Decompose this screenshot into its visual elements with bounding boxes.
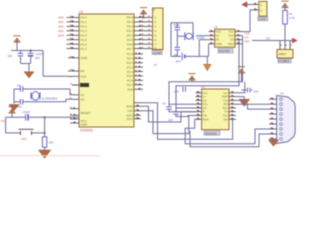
u1 left pins — [70, 15, 72, 18]
svg-text:P0.5: P0.5 — [127, 38, 134, 42]
wire j1 pin2 to ds1302 vcc1 — [243, 10, 253, 32]
svg-text:GND: GND — [81, 123, 89, 127]
header left — [148, 16, 150, 17]
svg-text:X2: X2 — [81, 98, 85, 102]
reset circuit (C1, S1, R2) — [6, 107, 79, 159]
svg-text:CON2: CON2 — [259, 17, 267, 21]
svg-text:P0.6: P0.6 — [127, 42, 134, 46]
cap C8 30pF top — [175, 27, 181, 29]
EA wire — [42, 51, 44, 77]
svg-text:11.0592MHz: 11.0592MHz — [42, 97, 58, 101]
svg-text:AT89S52: AT89S52 — [80, 129, 93, 133]
crystal Y2 32768 — [185, 32, 205, 40]
svg-text:RST: RST — [245, 40, 251, 44]
svg-text:GND: GND — [81, 56, 89, 60]
vcc above header — [140, 8, 147, 19]
svg-text:P1.7: P1.7 — [81, 47, 88, 51]
header JP1 — [147, 8, 164, 67]
crystal Y1 — [30, 92, 32, 99]
max232 U3 — [196, 85, 237, 135]
svg-text:C5: C5 — [162, 102, 166, 106]
svg-text:P1.6: P1.6 — [81, 42, 88, 46]
U1 right pins bottom group — [134, 103, 141, 119]
U1 left pins group P1 — [67, 18, 80, 49]
vcc arrow left (power in) — [242, 2, 253, 7]
svg-text:P2.0: P2.0 — [127, 52, 134, 56]
power connector J1 — [253, 1, 268, 21]
svg-text:DS1302: DS1302 — [219, 49, 230, 53]
svg-text:P1.1: P1.1 — [81, 20, 88, 24]
gnd near max232 — [236, 97, 250, 107]
crystal Y1 11.0592MHz circuit — [9, 84, 72, 111]
svg-text:4.7K: 4.7K — [289, 16, 295, 20]
cap 30p top inline — [20, 86, 22, 92]
switch S1 — [19, 129, 34, 135]
svg-text:MAX232: MAX232 — [205, 131, 217, 135]
svg-text:32768: 32768 — [197, 36, 205, 40]
svg-text:P2.3: P2.3 — [127, 65, 134, 69]
svg-text:X1: X1 — [81, 93, 85, 97]
svg-text:RESET: RESET — [81, 111, 91, 115]
svg-text:P2.2: P2.2 — [127, 61, 134, 65]
db9 left — [271, 98, 273, 99]
svg-text:P1.4: P1.4 — [81, 34, 88, 38]
svg-text:P2.4: P2.4 — [127, 70, 134, 74]
svg-text:ALE: ALE — [127, 88, 133, 92]
svg-text:DS18B20: DS18B20 — [278, 59, 290, 63]
mcu U1 — [79, 10, 134, 133]
U1 left pin names — [81, 16, 91, 127]
svg-text:U2: U2 — [214, 25, 218, 29]
U1 right pins P0 group — [134, 18, 147, 49]
gnd arrow below battery (orange) — [204, 56, 211, 70]
svg-text:104: 104 — [168, 118, 173, 122]
svg-text:P1: P1 — [281, 92, 285, 96]
XTAL pins — [72, 95, 79, 100]
resistor R2 10K — [42, 137, 46, 147]
svg-text:INT1: INT1 — [126, 117, 133, 121]
svg-text:GND: GND — [216, 42, 222, 46]
svg-text:RST: RST — [22, 137, 28, 141]
ds1302 sides — [210, 30, 212, 31]
svg-text:I/O: I/O — [245, 36, 248, 40]
wire DS1302 SCLK/IO to MCU bus — [169, 36, 243, 108]
svg-text:P1.2: P1.2 — [81, 25, 88, 29]
svg-text:AD2: AD2 — [58, 25, 64, 29]
DB9 connector P1 — [269, 92, 295, 144]
svg-text:CON8: CON8 — [153, 51, 161, 55]
svg-text:RXD: RXD — [127, 105, 134, 109]
svg-text:JP: JP — [154, 63, 157, 67]
j1 — [254, 3, 256, 4]
cap C9 30p bottom — [175, 47, 181, 49]
wire DQ net — [252, 40, 293, 42]
svg-text:P1.5: P1.5 — [81, 38, 88, 42]
resistor R1 4.7K — [283, 11, 295, 41]
net labels left (red) — [58, 16, 64, 38]
svg-text:18B20: 18B20 — [278, 52, 287, 56]
svg-text:P0.2: P0.2 — [127, 25, 134, 29]
u1 right pins — [142, 15, 144, 18]
svg-text:P1.3: P1.3 — [81, 29, 88, 33]
ds18b20 J2 — [277, 41, 293, 64]
wire MAX232 T1OUT/R1IN to DB9 — [236, 100, 269, 109]
svg-text:RST: RST — [228, 42, 234, 46]
cap C6 mid — [183, 87, 186, 92]
U1 left misc pins — [67, 58, 80, 123]
gnd DB9 pin5 — [269, 139, 279, 146]
cap C7 at max232 vcc — [242, 88, 259, 94]
svg-text:16V: 16V — [35, 56, 40, 60]
svg-text:AD0: AD0 — [58, 16, 64, 20]
svg-text:BT1: BT1 — [176, 60, 182, 64]
capacitors C4/C5 charge pump — [162, 102, 196, 122]
wire loopback to DB9 pins 7/8 — [185, 119, 269, 147]
svg-text:P0.1: P0.1 — [127, 20, 134, 24]
wire RXD/TXD serial U1 to MAX232 — [141, 103, 233, 140]
vcc small mid — [188, 74, 195, 82]
capacitor C1 10uF inline — [26, 114, 28, 121]
32k crystal circuit — [171, 23, 209, 57]
vcc near max232 right — [236, 67, 245, 93]
svg-text:AD1: AD1 — [58, 20, 64, 24]
capacitor C3 10uF — [28, 53, 34, 55]
svg-text:AD3: AD3 — [58, 29, 64, 33]
svg-text:P0.7: P0.7 — [127, 47, 134, 51]
svg-text:EA: EA — [81, 69, 85, 73]
svg-text:P2.1: P2.1 — [127, 57, 134, 61]
svg-text:30pF: 30pF — [174, 23, 181, 27]
pin number marks on IC/connector pins — [198, 3, 274, 140]
vcc arrow right end — [292, 38, 297, 43]
ds1302 U2 — [209, 25, 243, 53]
capacitor C2 104 — [18, 53, 24, 55]
svg-text:P0.3: P0.3 — [127, 29, 134, 33]
U1 right pins P2 group — [134, 54, 143, 89]
svg-text:ALE: ALE — [81, 75, 87, 79]
svg-text:P2.7: P2.7 — [127, 83, 134, 87]
svg-text:104: 104 — [174, 90, 179, 94]
svg-text:U1: U1 — [79, 10, 83, 14]
cap 30p bottom inline — [20, 99, 22, 105]
max232 sides — [197, 91, 199, 92]
svg-text:R2i: R2i — [224, 117, 229, 121]
svg-text:R2O: R2O — [203, 117, 210, 121]
svg-text:104: 104 — [7, 54, 12, 58]
battery BT1 rail — [171, 44, 209, 64]
PSEN dark box pin — [72, 83, 89, 87]
sheet border line — [0, 155, 100, 157]
svg-text:P1.0: P1.0 — [81, 16, 88, 20]
red pin-number labels — [70, 3, 292, 139]
svg-text:P2.6: P2.6 — [127, 79, 134, 83]
svg-text:P2.5: P2.5 — [127, 74, 134, 78]
vcc above R1 — [281, 1, 288, 11]
svg-text:+10uF: +10uF — [22, 110, 30, 114]
ground — [24, 72, 34, 78]
svg-text:P0.4: P0.4 — [127, 34, 134, 38]
svg-text:30p: 30p — [17, 84, 22, 88]
svg-text:10K: 10K — [49, 141, 54, 145]
decoupling caps C2/C3 — [7, 36, 66, 78]
svg-text:TXD: TXD — [127, 109, 134, 113]
ground — [9, 105, 19, 111]
ds18b20 top — [281, 45, 282, 46]
svg-text:CLK: CLK — [245, 32, 250, 36]
svg-text:104: 104 — [254, 90, 259, 94]
svg-text:P0.0: P0.0 — [127, 16, 134, 20]
svg-text:AD4: AD4 — [58, 34, 64, 38]
